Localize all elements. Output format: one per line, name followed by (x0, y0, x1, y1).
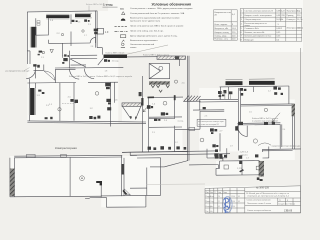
divider x70 (69, 157, 71, 196)
fan coil boxes (37, 21, 40, 26)
circled 1 lamp hall (95, 92, 99, 96)
side room door arc (124, 189, 130, 195)
svg-text:09: 09 (238, 196, 240, 198)
bottom-right room of middle block walls (207, 148, 227, 158)
window bar B ticks (249, 78, 275, 80)
left grid cell texts (210, 195, 240, 213)
svg-text:Система электроснабжения, В: Система электроснабжения, В (244, 11, 273, 13)
circled 1 right block (264, 108, 267, 111)
lower-middle bottom wall b (130, 154, 230, 156)
svg-text:Кол: Кол (210, 192, 213, 194)
svg-text:№д: №д (218, 191, 221, 194)
door arc entry (26, 71, 35, 78)
apartment bottom wall b (27, 123, 146, 124)
svg-text:Утв: Утв (206, 211, 209, 213)
wc wall vertical x69.3 (68, 51, 70, 68)
bottom wall (10, 195, 101, 198)
svg-text:ПЛ: ПЛ (120, 7, 124, 11)
lamp V symbols below bar (151, 85, 169, 92)
wall x199.8 (199, 100, 201, 111)
right wall dark seg (122, 164, 125, 175)
window bar A (226, 81, 243, 85)
annex step b (85, 197, 90, 199)
legend sym row7 switch (122, 40, 125, 43)
left wall lower b (34, 83, 36, 88)
door arc corridor 1 (70, 69, 80, 79)
big table col v1 (280, 9, 282, 22)
hall right wall x114.3 (113, 82, 115, 103)
window bar A ticks (226, 78, 243, 80)
svg-text:Схема электроснабжения: Схема электроснабжения (247, 200, 271, 202)
annex vertical x101.2 (100, 185, 102, 198)
bottom room symbol row (148, 146, 187, 150)
cluster room2 (154, 118, 160, 121)
left grid horizontals (205, 192, 245, 194)
svg-text:1.9: 1.9 (105, 30, 109, 34)
corridor long wall y67.8 (69, 66, 123, 69)
top wall a (14, 154, 122, 157)
marks inside outside-room (224, 165, 259, 170)
marks below bar (257, 177, 263, 181)
wall x268.8 (268, 147, 270, 159)
kitchen left cluster (33, 64, 40, 67)
dashed leader wire (62, 103, 76, 105)
dark seg wall x174.6 top (174, 95, 176, 100)
wall y110 (193, 109, 224, 111)
kitchen dot marks (38, 54, 40, 56)
socket cluster top wall 2 (84, 19, 89, 21)
svg-text:Напряжение сети,: Напряжение сети, (214, 12, 231, 14)
arrowheads on V wires (130, 116, 137, 120)
wire diagonal to bar (98, 58, 104, 65)
door dark mark side room (123, 190, 128, 196)
svg-text:11: 11 (218, 201, 220, 203)
svg-text:1,2/3 1,4: 1,2/3 1,4 (240, 152, 249, 154)
left wall lower a (28, 79, 30, 121)
side room bottom (101, 194, 160, 197)
right wall x122.3 a (121, 156, 123, 197)
lobby wall dark bar W5 (104, 55, 128, 59)
window tick lines (29, 13, 92, 115)
cluster bottom mid (212, 144, 218, 147)
exit room right wall (199, 111, 201, 129)
window bar left vertical W4 (30, 88, 34, 115)
annex box right (145, 195, 147, 207)
bottom clusters right block (239, 154, 259, 164)
dark diagonal streak in room (239, 169, 244, 172)
top right part y161 (220, 160, 260, 162)
svg-text:Стоимость Вт/ч: Стоимость Вт/ч (244, 28, 258, 30)
wall left kitchen ledge y50.8 (27, 50, 30, 52)
svg-text:Освещ-ть: Освещ-ть (286, 19, 295, 21)
legend sym row2 triangle (122, 12, 126, 15)
svg-text:Поэтажная схема 1 этажа: Поэтажная схема 1 этажа (247, 203, 272, 205)
svg-text:Подп: Подп (223, 192, 227, 194)
svg-text:Светильник потолочный: Светильник потолочный (130, 43, 155, 46)
corner verticals (129, 152, 131, 155)
big table col value right (295, 9, 297, 42)
cluster below equipment box (210, 128, 217, 134)
annex box bottom (106, 206, 145, 208)
frame bottom edge (205, 212, 301, 214)
corner ledge y157.8 (263, 157, 269, 159)
side room top corner b (130, 154, 137, 156)
small table frame (214, 10, 238, 40)
wire diagonal corridor (70, 59, 86, 67)
svg-text:Провод: Провод (286, 15, 294, 17)
big table frame (240, 9, 302, 42)
sockets left wall (38, 90, 44, 94)
wire vertical pair x189 (188, 56, 190, 161)
svg-text:Стадия Лист Листов: Стадия Лист Листов (278, 204, 295, 206)
wall left kitchen x30 (29, 51, 31, 64)
svg-text:лампа: лампа (130, 47, 137, 49)
hatched bar under panel (149, 81, 170, 84)
wire branch corner down (217, 165, 219, 169)
wall x220 lower (219, 133, 221, 151)
right block mid wall b (237, 123, 280, 126)
cluster mid upper room (240, 88, 247, 96)
wall y99.5 vestibule a (199, 98, 238, 100)
frame right edge (300, 48, 302, 213)
svg-text:Схема электроснабжения: Схема электроснабжения (247, 210, 271, 212)
big table rows (240, 12, 302, 14)
svg-text:Сид.: Сид. (210, 201, 214, 203)
vent symbol circle (80, 176, 85, 181)
panel diag b (149, 71, 160, 79)
corridor wall y55.3 (71, 54, 98, 56)
lower room cluster at wall x74 (70, 99, 78, 103)
panel detail box (149, 64, 169, 79)
svg-text:Освещ. авар.: Освещ. авар. (214, 35, 227, 37)
lamp circle lower mid (200, 138, 204, 142)
vertical hatched bar right-center (259, 161, 264, 177)
svg-text:3 ф: 3 ф (297, 10, 301, 13)
legend sym row9 dash (121, 47, 125, 49)
title block outer (205, 186, 301, 213)
door arc corridor 2 (84, 69, 94, 79)
niche ledge y47.6 (97, 47, 102, 49)
wall bathroom bottom y35.2 (36, 34, 49, 36)
legend sym row8 lamp (122, 43, 125, 46)
corridor inner line y65 (71, 64, 87, 66)
cluster above outside room (215, 155, 227, 159)
kitchen extract triangle (50, 49, 53, 53)
door marks on top wall (27, 154, 36, 157)
left step horizontal (216, 167, 220, 169)
circled 3 lamp (58, 108, 61, 111)
right block right wall a (292, 104, 294, 149)
wall x55.6 below (55, 70, 57, 83)
switch cluster kitchen wall (62, 54, 69, 63)
side room right wall x160.6 (160, 158, 162, 196)
svg-text:2.6 скр.: 2.6 скр. (112, 60, 120, 62)
svg-text:Линия сети освещ. каб. 3х1,5 с: Линия сети освещ. каб. 3х1,5 скр. (130, 30, 164, 32)
lamp circle mid room (163, 101, 167, 105)
small mark near vestibule corner (222, 95, 224, 97)
right block right wall b (293, 104, 295, 149)
arrow diagonal right block (272, 113, 280, 122)
annex step a (90, 196, 107, 198)
socket stems (220, 93, 231, 99)
right wall dark seg (292, 104, 295, 117)
duct box on wire (157, 56, 186, 59)
svg-text:Линия сети розеток каб. ВВГнг: Линия сети розеток каб. ВВГнг 3х2,5 скры… (130, 26, 184, 28)
svg-text:1ЭБ-09: 1ЭБ-09 (284, 209, 293, 212)
svg-text:05: 05 (218, 206, 220, 208)
wall left inner upper (35, 18, 37, 35)
left wall (215, 168, 217, 175)
board symbol (39, 51, 42, 53)
stairs top line (183, 100, 200, 102)
apartment bottom wall a (27, 121, 146, 122)
svg-text:г.Серпухов, ул. Центральная д.: г.Серпухов, ул. Центральная д.1-3 корпус… (247, 195, 290, 197)
svg-text:вводе: вводе (244, 25, 250, 27)
legend sym row6 box (120, 35, 125, 38)
svg-text:Общая мощность: Общая мощность (244, 19, 260, 21)
annex box left (105, 197, 107, 207)
wire vertical pair x187.3 (186, 56, 188, 161)
lamp circle right of bar (174, 80, 177, 83)
svg-text:Станок розеточный блок из 2-х: Станок розеточный блок из 2-х розеток с … (130, 12, 185, 15)
big table col num (243, 9, 245, 42)
marks upper-mid room (203, 107, 206, 109)
side room top corner a (122, 151, 188, 154)
lower-middle bottom wall a (122, 151, 215, 152)
wire horizontal y167 (150, 166, 165, 168)
wire diagonal to y167 (165, 161, 189, 167)
divider x253.5 (253, 87, 255, 92)
panel circle (159, 66, 163, 70)
dark seg wall x142.5 (141, 98, 143, 106)
svg-text:Выключатель одноклавишный скры: Выключатель одноклавишный скрытой устано… (130, 17, 180, 20)
cluster at wall x142.5 low (139, 92, 142, 96)
svg-text:Вибрация: Вибрация (244, 39, 253, 41)
equipment box with label (197, 119, 226, 126)
kitchen bottom wall y70.5 (34, 69, 44, 71)
partition x71 (70, 14, 72, 24)
hall right wall x110.6 (110, 82, 112, 126)
svg-text:Человек долговременно max: Человек долговременно max (244, 36, 271, 38)
side room inner wall x146.8 (146, 168, 148, 196)
door arc right block (238, 126, 248, 137)
right part horizontals (245, 191, 301, 193)
socket cluster top wall left of partition (72, 20, 78, 22)
right wall x122.3 b (123, 158, 125, 196)
right block mid wall a (237, 122, 280, 125)
svg-text:Кабель ВВГнг 3х1,5: Кабель ВВГнг 3х1,5 (106, 53, 126, 55)
wall left outer (26, 12, 28, 64)
svg-text:1 этаж: 1 этаж (103, 3, 114, 7)
svg-text:при высоте 1м от уровня пола: при высоте 1м от уровня пола (130, 20, 161, 22)
svg-text:Выключатель одноклавишн.: Выключатель одноклавишн. (130, 40, 158, 42)
top wall b (14, 156, 122, 159)
ceiling lamp room2 (82, 30, 84, 32)
partition y43 (48, 42, 90, 44)
corridor cluster at bar (104, 59, 110, 62)
door arc hall (90, 37, 95, 43)
its symbol cluster (214, 149, 222, 156)
bottom wall (216, 174, 264, 176)
wall y97.3 (148, 96, 183, 99)
svg-text:Щиток квартирный встроен. расп: Щиток квартирный встроен. расп. щиток 3 … (130, 34, 178, 37)
legend sym row3 half-dark blob (121, 19, 126, 21)
hatched top bar outline (122, 103, 141, 107)
niche vertical x102.3 (101, 48, 103, 55)
hall bottom wall y82.5 (27, 82, 76, 85)
socket cluster right wall (94, 29, 98, 35)
ceiling lamp room1 (61, 33, 63, 35)
wall right inner x97 (96, 11, 98, 48)
cluster mid room low (161, 112, 168, 115)
svg-text:Напряж. освещ.: Напряж. освещ. (214, 32, 229, 34)
svg-text:24: 24 (218, 196, 220, 198)
inner ledge y188 (130, 187, 147, 189)
left wall inner (14, 158, 16, 197)
window bar B (249, 81, 275, 85)
left wall outer (9, 158, 11, 197)
wire curve to facade text (258, 143, 271, 146)
svg-text:Мощность, кВт: Мощность, кВт (214, 28, 228, 30)
dark corner blob (96, 181, 102, 185)
svg-text:Пров: Пров (206, 201, 210, 203)
wall x174.6 upper (174, 95, 176, 118)
hall clusters on wall x110.6 (105, 83, 111, 111)
big table col text end (275, 9, 277, 42)
svg-text:10,5кВт: 10,5кВт (276, 19, 283, 21)
upper left wall x220.5 (220, 87, 222, 100)
small table rows (214, 21, 238, 23)
duct dark segment (175, 56, 179, 59)
exit room bottom wall (175, 128, 200, 130)
svg-text:Розеточн. сеть: Розеточн. сеть (214, 39, 228, 41)
scattered tiny labels (41, 35, 286, 159)
stairs diagonals (184, 95, 201, 101)
wall y127 (149, 126, 182, 128)
crease line (127, 45, 168, 54)
title top subrow (205, 190, 245, 192)
lamp circle lower room (253, 139, 257, 143)
entry door wall x35.4 (34, 64, 36, 78)
big table col v2 (285, 9, 287, 42)
svg-text:Кабель ВВГнг 3х2,5 скрыто: Кабель ВВГнг 3х2,5 скрыто (69, 76, 96, 78)
sockets above vestibule wall (218, 90, 232, 97)
leader line to board (25, 68, 30, 71)
svg-text:Кабель ВВГнг 3х1,5 скрыто в шт: Кабель ВВГнг 3х1,5 скрыто в штробе (97, 76, 133, 78)
blue signature scribbles (224, 198, 230, 213)
bottom wall sockets left (45, 117, 53, 119)
wall x74 vertical (73, 83, 75, 121)
svg-text:Напряж. сетей с освещением: Напряж. сетей с освещением (244, 14, 272, 17)
svg-text:Катег. надежн.: Катег. надежн. (214, 24, 228, 26)
wc wall vertical x62.3 (61, 43, 63, 58)
svg-text:12.04: 12.04 (231, 196, 235, 198)
lower room top wall b (55, 68, 76, 70)
window bar W1 (46, 15, 69, 18)
legend sym row5 dashdot (115, 30, 128, 32)
dark seg on wall y97.3 (148, 96, 155, 98)
right block left wall a (237, 88, 239, 151)
blue stamp hint (223, 197, 232, 213)
panel diag a (149, 64, 160, 72)
upper top wall y81 (220, 85, 290, 88)
left wall hatched bar (10, 169, 15, 197)
wall x148.7 (148, 98, 150, 153)
wall y111.4 (200, 110, 224, 112)
divider x281.8 (281, 124, 283, 147)
left grid verticals (209, 188, 211, 213)
wire V from bar a (123, 107, 132, 120)
svg-text:Станок розетка с зазмлен. 16А: Станок розетка с зазмлен. 16А с двумя ро… (130, 7, 193, 10)
wire horizontal y56.7 (127, 56, 157, 58)
partition x48.4 (47, 18, 49, 35)
wall y117 (149, 116, 182, 118)
right block top wall b (241, 105, 294, 108)
lower room top wall a (55, 67, 76, 69)
kitchen small box (42, 52, 44, 54)
svg-text:Условные обозначения: Условные обозначения (152, 2, 192, 6)
svg-text:система вентиляции В1: система вентиляции В1 (198, 124, 219, 126)
window bar W2 (75, 14, 91, 17)
wall right outer x95.6 (95, 11, 97, 48)
wall x262.5 short (262, 149, 264, 152)
right block top wall a (241, 103, 294, 106)
svg-text:Человек, чел max кВт: Человек, чел max кВт (244, 32, 264, 34)
wall x59.9 vertical (59, 83, 61, 121)
corridor wall y58.6 (71, 58, 98, 60)
pilaster right (97, 28, 103, 34)
right block left wall b (240, 88, 242, 123)
bottom wall right block (263, 148, 302, 151)
svg-text:выход: выход (178, 120, 185, 122)
outside room walls (216, 158, 264, 175)
svg-text:09: 09 (238, 201, 240, 203)
mid wall clusters (235, 122, 275, 131)
upper right wall x288.9 (288, 86, 290, 104)
svg-text:0,38/2: 0,38/2 (276, 28, 282, 30)
duct stub vertical (179, 59, 181, 66)
small table col divider (230, 10, 232, 40)
wall x174.6 lower (174, 126, 176, 152)
door arc room2 (44, 71, 55, 80)
hall bottom wall y82.5 right (88, 81, 118, 83)
svg-text:Компрессорная: Компрессорная (55, 146, 77, 150)
divider x242 (241, 161, 243, 175)
wall top outer (27, 11, 97, 12)
cluster right upper room (273, 87, 283, 95)
kitchen step x43.8 (43, 65, 45, 71)
wall y101.8 vestibule b (199, 101, 238, 103)
legend sym row4 dashed (115, 26, 128, 28)
window bar left vertical W3 (31, 27, 35, 48)
side room top y157.8 (137, 157, 161, 159)
bottom wall sockets mid (89, 116, 100, 120)
bottom wall right block b (263, 150, 293, 152)
partition x48.4 lower seg (47, 40, 49, 43)
left step vertical (219, 161, 221, 168)
door marks exit (189, 127, 195, 130)
svg-text:№ ЭПб-309: № ЭПб-309 (256, 187, 269, 190)
svg-text:наружное освещение фасада: наружное освещение фасада (272, 145, 302, 148)
svg-text:Л: Л (214, 192, 215, 194)
wire V from bar b (135, 107, 140, 120)
svg-text:0,38/0,22: 0,38/0,22 (276, 11, 285, 13)
wire branch right y164.7 (189, 164, 218, 166)
wall x142.5 (142, 76, 144, 153)
wire arrow lower-left (143, 108, 146, 112)
divider x280.2 (279, 124, 281, 148)
vent symbol dot (81, 178, 82, 179)
